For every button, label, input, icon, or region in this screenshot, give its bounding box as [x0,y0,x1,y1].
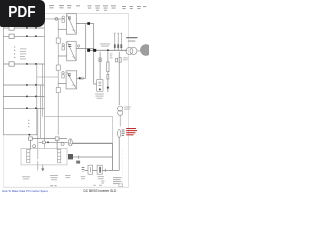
svg-text:How To Make Solar PV Inverter: How To Make Solar PV Inverter Specs [2,189,48,193]
top connector wire [45,18,63,20]
transformer T3 winding 1 [27,149,61,162]
input fuse symbol U2 [62,44,64,46]
main AC bus wire [89,49,128,51]
LV output wires [85,143,120,170]
title block text [113,177,122,184]
battery feed wire with fuse F4 [99,52,101,80]
battery feed wire (left) [94,52,122,105]
PV string 2 wire [3,35,44,37]
input wire U1 [58,28,66,30]
battery label text [95,94,104,99]
step-up transformer drop wire with disconnects [118,52,120,105]
breaker CB2 [97,165,102,174]
transformer bay enclosure [21,149,67,165]
output wire U3 [77,77,86,79]
utility grid node [140,45,151,56]
service entrance symbol [82,167,85,172]
breaker CB1 [88,165,93,174]
generator G1 with output wire [68,139,112,146]
MV feeder A wire with isolators [28,137,67,150]
header legend symbols [41,11,58,21]
ellipsis (more strings) group A [14,47,15,59]
surge arresters SA1-SA3 [115,34,122,50]
battery bank B1 [97,79,103,91]
input wire U2 [58,55,66,57]
AC riser wires [85,24,87,79]
MV feeder B wire [39,141,69,144]
input fuse symbol U1 [62,16,64,18]
transformer T1 label text [126,37,137,41]
junction dots on PV strings 1-3 [26,27,37,65]
disconnect switch wire [37,108,39,159]
group B bottom tie wire [3,134,37,136]
bus junction nodes [87,49,90,52]
column header text [39,5,147,10]
grid transformer T1 [126,47,141,54]
PV array group B : strings 4-6 wires and bottom tie [3,85,44,135]
CT tap U2 [78,45,80,47]
energy meter M1 [118,129,121,137]
transformer T4 winding 2 [58,149,61,162]
fuses F1 F2 F3 on feed bus [56,38,60,93]
note text group A [20,49,27,60]
ground [41,165,44,172]
DC bus wires [37,17,62,171]
cross connector wire [37,76,58,78]
footer marks [50,184,56,187]
input fuse symbol U3 [62,72,64,74]
svg-text:DC BESS Inverter SLD: DC BESS Inverter SLD [84,189,117,193]
DC bus A wire [44,17,46,149]
meter feeder wire [118,137,120,170]
input wire U3 [58,83,66,85]
inverter U1 [58,14,93,35]
drop labels text [110,54,129,61]
equipment labels text [22,175,104,180]
junction node U3 out [79,77,81,79]
output wire U1 with junction node [76,23,93,25]
step-up transformer T2 [118,106,123,126]
inverter U3 [58,71,85,89]
inverter U2 [58,41,93,61]
PV array group A [3,26,44,66]
PV string 3 wire [3,63,44,65]
aux load drop wire with fuse F5 [107,52,109,92]
bus label text [100,44,110,47]
load center block with tap wire [68,154,113,164]
ellipsis (more strings) group B [28,120,29,127]
inverter feed bus wire [57,19,59,135]
PV string 1 wire [3,27,44,29]
output wire U2 [76,47,94,49]
AC room boundary wire [45,117,113,171]
CT U3 [81,77,84,80]
DC bus C wire [36,64,38,135]
DC bus B wire [42,64,44,117]
red annotation text [126,128,137,135]
